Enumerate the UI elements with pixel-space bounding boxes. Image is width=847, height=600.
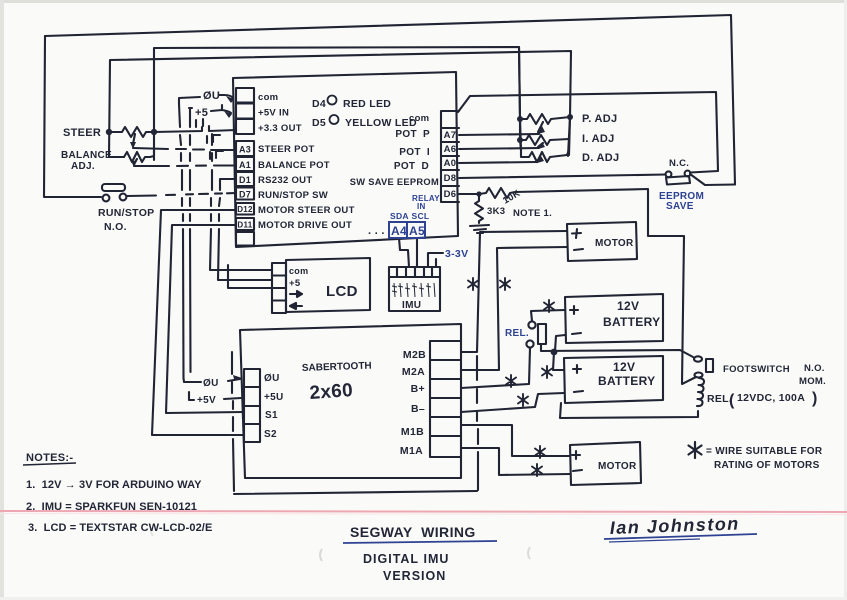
svg-text:D5: D5 [312,117,326,129]
svg-text:M1A: M1A [400,445,423,457]
svg-text:A6: A6 [444,144,457,155]
svg-text:FOOTSWITCH: FOOTSWITCH [723,364,790,375]
svg-text:+5V: +5V [197,395,216,406]
svg-text:A7: A7 [444,130,457,141]
svg-text:D12: D12 [237,205,253,214]
svg-text:SDA SCL: SDA SCL [390,211,429,221]
svg-text:D1: D1 [239,175,251,185]
svg-text:(: ( [729,392,735,409]
svg-text:I. ADJ: I. ADJ [582,133,615,145]
svg-text:D11: D11 [237,221,252,230]
svg-text:): ) [812,390,818,407]
svg-text:M2B: M2B [403,349,426,361]
svg-text:D6: D6 [444,189,457,200]
svg-text:12V: 12V [613,360,635,374]
svg-text:IN: IN [417,202,426,211]
svg-text:com: com [258,92,278,103]
svg-text:12VDC, 100A: 12VDC, 100A [737,392,805,404]
svg-text:ØU: ØU [264,373,280,384]
svg-text:STEER: STEER [63,127,101,139]
svg-text:P. ADJ: P. ADJ [582,113,617,125]
svg-text:BATTERY: BATTERY [598,374,655,388]
svg-text:POT I: POT I [399,147,430,158]
svg-text:+5V IN: +5V IN [258,108,289,119]
svg-text:A4: A4 [391,224,407,238]
svg-text:A1: A1 [239,160,251,170]
svg-text:D. ADJ: D. ADJ [582,152,619,164]
svg-text:POT D: POT D [394,161,429,172]
svg-text:+5: +5 [195,107,208,119]
svg-text:ADJ.: ADJ. [71,161,95,172]
svg-text:NOTES:-: NOTES:- [26,452,73,464]
svg-text:NOTE 1.: NOTE 1. [513,208,552,219]
svg-text:MOM.: MOM. [799,376,826,387]
svg-text:S2: S2 [264,429,277,440]
svg-text:A0: A0 [444,158,457,169]
svg-text:VERSION: VERSION [383,569,446,583]
svg-text:SEGWAY WIRING: SEGWAY WIRING [350,524,476,540]
svg-text:com: com [409,113,429,124]
svg-text:+5: +5 [289,278,301,289]
svg-text:POT P: POT P [395,129,430,140]
svg-text:SW SAVE EEPROM: SW SAVE EEPROM [350,177,439,187]
svg-text:N.O.: N.O. [104,221,127,233]
svg-text:1. 12V → 3V FOR ARDUINO WAY: 1. 12V → 3V FOR ARDUINO WAY [26,479,202,491]
svg-text:3K3: 3K3 [487,206,505,217]
svg-text:ØU: ØU [203,378,219,389]
svg-text:M2A: M2A [402,366,425,378]
svg-text:D4: D4 [312,98,326,110]
svg-text:LCD: LCD [326,283,358,300]
svg-text:RS232 OUT: RS232 OUT [258,175,312,186]
svg-text:RUN/STOP SW: RUN/STOP SW [258,190,328,201]
svg-text:com: com [289,266,308,276]
svg-text:B–: B– [411,403,425,415]
svg-text:3. LCD = TEXTSTAR CW-LCD-02/E: 3. LCD = TEXTSTAR CW-LCD-02/E [28,522,212,534]
svg-text:ØU: ØU [203,90,220,102]
svg-text:B+: B+ [411,383,425,395]
svg-text:12V: 12V [617,299,639,313]
svg-text:A3: A3 [239,145,251,155]
svg-text:N.O.: N.O. [804,363,825,374]
svg-text:BALANCE: BALANCE [61,150,112,161]
svg-text:STEER POT: STEER POT [258,144,315,155]
svg-text:IMU: IMU [402,300,421,311]
svg-text:A5: A5 [409,224,425,238]
svg-text:M1B: M1B [401,426,424,438]
svg-text:SAVE: SAVE [666,201,694,212]
svg-text:+3.3 OUT: +3.3 OUT [258,123,302,134]
svg-text:REL.: REL. [505,328,529,339]
svg-text:MOTOR: MOTOR [595,238,634,249]
svg-text:RUN/STOP: RUN/STOP [98,207,154,219]
svg-text:D7: D7 [239,190,251,200]
svg-text:+5U: +5U [264,392,284,403]
svg-text:RATING OF MOTORS: RATING OF MOTORS [714,460,820,471]
svg-text:YELLOW LED: YELLOW LED [345,117,417,129]
svg-text:2x60: 2x60 [309,380,354,404]
svg-text:N.C.: N.C. [669,158,689,169]
svg-text:MOTOR: MOTOR [598,461,637,472]
svg-text:BATTERY: BATTERY [603,315,660,329]
svg-text:S1: S1 [265,410,278,421]
svg-text:2. IMU = SPARKFUN SEN-10121: 2. IMU = SPARKFUN SEN-10121 [26,501,197,513]
svg-text:D8: D8 [444,173,457,184]
svg-text:BALANCE POT: BALANCE POT [258,160,330,171]
svg-text:MOTOR STEER OUT: MOTOR STEER OUT [258,205,355,216]
svg-text:RED LED: RED LED [343,98,391,110]
svg-text:= WIRE SUITABLE FOR: = WIRE SUITABLE FOR [706,446,823,457]
svg-text:. . .: . . . [368,225,385,237]
svg-text:3-3V: 3-3V [445,248,468,260]
svg-text:DIGITAL IMU: DIGITAL IMU [363,552,449,566]
svg-text:MOTOR DRIVE OUT: MOTOR DRIVE OUT [258,220,352,231]
